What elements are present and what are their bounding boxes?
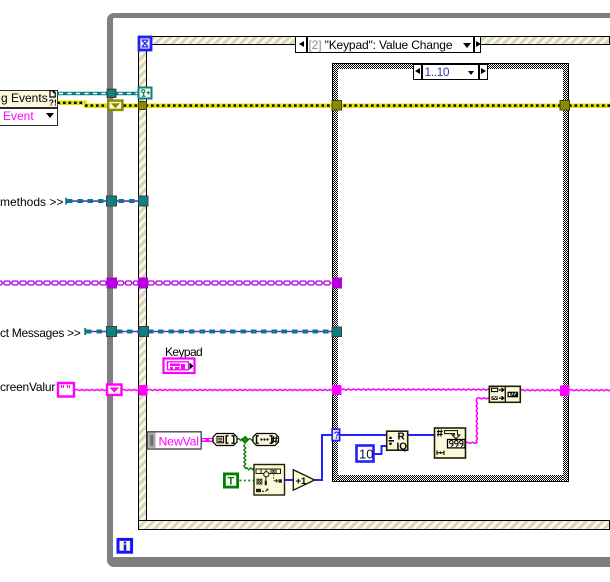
svg-text:?!: ?! <box>49 98 57 108</box>
tunnel: purple on case left (row 283) <box>332 278 342 289</box>
node: conversion bullet (array size) <box>253 434 279 446</box>
svg-text:T: T <box>228 476 235 488</box>
case selector label "1..10" <box>413 64 488 80</box>
constant: 10 <box>357 446 374 462</box>
wire: cluster chain left edge to loop tunnel <box>0 281 107 285</box>
event structure E1 left border <box>138 36 148 530</box>
wire: magenta dashed NewVal out <box>202 438 214 442</box>
terminal: case selector "?" <box>332 429 340 441</box>
node: +1 increment <box>293 470 314 491</box>
wire: cluster chain event tunnel to case tunnel <box>148 281 332 285</box>
case C1 dither left <box>333 64 338 481</box>
node: concatenate strings <box>489 386 520 402</box>
tunnel: teal on loop (row 332) <box>107 327 117 337</box>
wire: string vertical riser to concatenate <box>476 399 477 443</box>
tunnel: olive on case right <box>560 101 570 111</box>
wire: green dotted boolean (T out) <box>240 480 254 482</box>
wire: string into concatenate lower input <box>477 398 490 399</box>
node: control refnum "Keypad" icon <box>164 359 195 374</box>
junction: green diamond <box>242 437 249 444</box>
event structure E1 top border <box>138 36 610 45</box>
wire: string event tunnel to case tunnel <box>148 389 333 390</box>
shift register: magenta (ScreenValue) <box>107 385 122 396</box>
svg-text:?: ? <box>334 431 340 442</box>
wire: refnum dashed (ct Messages) y=331.5 <box>84 328 332 335</box>
tunnel: magenta on case right (row 390) <box>560 386 570 397</box>
wire: cluster chain loop tunnel to event tunnel <box>118 281 139 285</box>
node: dynamic event terminal <box>139 88 152 99</box>
node: conversion bullet (string to array) <box>213 434 237 446</box>
svg-text:+1: +1 <box>296 476 308 487</box>
tunnel: olive on event border <box>139 102 147 110</box>
wire: boolean array conversion to junction <box>237 439 242 441</box>
wire: teal user-event wire y=93 <box>58 92 139 96</box>
wire: boolean array junction to array-size bullet <box>248 439 254 441</box>
wire: boolean array into search node <box>245 468 254 470</box>
svg-text:IQ: IQ <box>397 442 408 453</box>
event structure E1 bottom border <box>138 520 610 530</box>
wire: string terminal to shift register <box>75 389 108 390</box>
tunnel: purple on event (row 283) <box>138 278 148 289</box>
constant: boolean T <box>224 474 237 488</box>
wire: string concatenate out to case right tunnel <box>520 390 561 391</box>
case structure C1 frame <box>332 63 569 482</box>
tunnel: olive on case left <box>332 101 342 111</box>
wire: refnum dashed (methods) y=201 <box>65 198 138 205</box>
wire: boolean array junction drop vertical <box>244 444 246 468</box>
event selector label "[2] Keypad: Value Change" <box>295 36 482 53</box>
tunnel: magenta on event (row 390) <box>139 385 148 396</box>
wire: string case tunnel to concatenate node <box>341 389 490 390</box>
while loop W1 border <box>107 13 610 567</box>
shift register: olive (event registration) <box>108 101 122 110</box>
terminal: timeout hourglass <box>139 37 151 50</box>
terminal: loop iteration i <box>118 539 132 552</box>
case C1 dither bottom <box>333 475 568 481</box>
node: number to decimal string (999) <box>435 428 466 458</box>
node: search 1D array <box>254 465 285 496</box>
case C1 dither top <box>333 64 568 69</box>
tunnel: teal on case left (row 332) <box>332 327 342 337</box>
label "methods >>" <box>0 195 63 209</box>
tunnel: teal on event (row 332) <box>139 327 149 337</box>
node: quotient & remainder <box>387 431 408 452</box>
wire: i32 increment to case selector terminal <box>315 435 333 480</box>
wire: string case right tunnel to edge <box>569 390 610 391</box>
wire: i32 constant 10 to quotient node <box>375 446 387 454</box>
tunnel: teal on loop (row 93) <box>107 89 116 97</box>
wire: olive event-reg wire upper jog <box>58 101 108 108</box>
label: page + ?! glyphs on refnum label box <box>49 91 57 108</box>
wire: string shift register to event tunnel <box>122 389 140 390</box>
wire: string 999 node output horizontal <box>465 442 478 443</box>
wire: i32 quotient node to 999 node <box>408 434 435 436</box>
svg-text:NewVal: NewVal <box>159 435 199 449</box>
terminal: string "creenValur" <box>58 383 74 397</box>
tunnel: teal on event (row 201) <box>139 196 149 206</box>
label "ct Messages >>" <box>0 326 81 340</box>
label "creenValur" <box>0 380 55 394</box>
wire: i32 selector terminal to quotient node <box>341 434 387 436</box>
tunnel: purple on loop (row 283) <box>107 278 118 289</box>
label box "g Events" (user event refnum) <box>0 90 58 108</box>
tunnel: magenta on case left (row 390) <box>332 385 342 395</box>
label "Keypad" <box>165 345 202 359</box>
Event ring dropdown arrow <box>46 113 54 118</box>
svg-text:10: 10 <box>359 447 373 462</box>
tunnel: teal on loop (row 201) <box>107 196 117 206</box>
node: event data node "NewVal" <box>147 432 201 449</box>
case C1 dither right <box>563 64 568 481</box>
label box "Event" ring <box>0 108 58 126</box>
wire: i32 search output to increment <box>285 479 294 481</box>
wire: olive event-reg wire main run <box>124 103 610 108</box>
